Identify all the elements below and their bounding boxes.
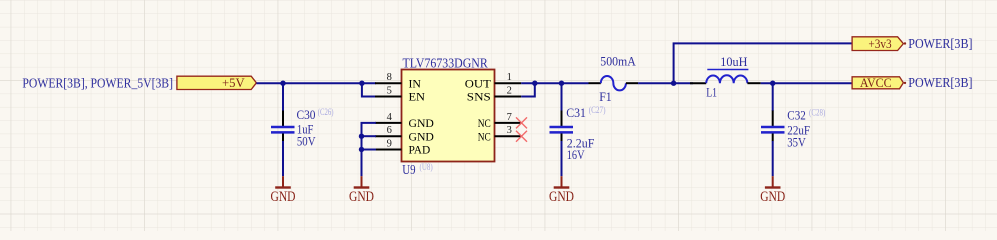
svg-text:(U8): (U8): [420, 162, 433, 172]
svg-text:9: 9: [387, 139, 392, 150]
svg-text:(C28): (C28): [809, 107, 825, 117]
svg-text:NC: NC: [478, 131, 491, 143]
svg-text:5: 5: [387, 86, 392, 97]
svg-text:IN: IN: [409, 78, 422, 90]
svg-text:GND: GND: [271, 189, 296, 205]
svg-text:POWER[3B]: POWER[3B]: [908, 36, 972, 51]
svg-text:+3v3: +3v3: [868, 36, 891, 51]
svg-text:POWER[3B], POWER_5V[3B]: POWER[3B], POWER_5V[3B]: [22, 75, 173, 90]
wire C30 top: [282, 83, 284, 111]
svg-text:SNS: SNS: [467, 92, 491, 104]
node junction pin6 tap: [359, 134, 364, 139]
wire C32 bottom: [772, 141, 774, 176]
wire fuse to L1: [638, 82, 693, 84]
svg-text:16V: 16V: [567, 148, 585, 162]
ground GND under U9: [349, 176, 374, 205]
regulator U9 body TLV76733DGNR: [402, 56, 495, 178]
svg-text:7: 7: [507, 112, 512, 123]
svg-text:4: 4: [387, 112, 393, 123]
svg-text:U9: U9: [402, 163, 415, 178]
pin 9 PAD: [375, 139, 430, 157]
node junction +3v3 tap: [671, 81, 676, 86]
svg-text:50V: 50V: [297, 134, 316, 148]
wire C30 bottom: [282, 141, 284, 176]
svg-text:C32: C32: [787, 108, 806, 122]
svg-text:500mA: 500mA: [600, 55, 636, 69]
wire L1 to AVCC port: [761, 82, 852, 84]
svg-text:L1: L1: [706, 85, 717, 99]
svg-text:GND: GND: [760, 189, 785, 205]
svg-text:10uH: 10uH: [720, 55, 747, 69]
svg-text:GND: GND: [409, 118, 434, 130]
svg-text:AVCC: AVCC: [860, 75, 892, 90]
capacitor C31: [550, 105, 606, 162]
pin 5 EN: [375, 86, 426, 104]
svg-text:+5V: +5V: [222, 75, 245, 90]
pin 7 NC with no-connect cross: [478, 112, 527, 130]
wire C32 top: [772, 83, 774, 111]
pin 6 GND: [375, 125, 434, 143]
node junction SNS tap: [532, 81, 537, 86]
svg-text:PAD: PAD: [409, 145, 431, 157]
wire C31 bottom: [561, 141, 563, 176]
svg-text:2: 2: [507, 86, 512, 97]
svg-text:1: 1: [507, 72, 512, 83]
svg-text:TLV76733DGNR: TLV76733DGNR: [403, 56, 489, 71]
svg-text:C31: C31: [566, 106, 586, 120]
fuse F1 500mA: [589, 55, 639, 104]
ground GND under C30: [271, 176, 296, 205]
wire riser to +3v3 port: [674, 43, 853, 83]
svg-text:F1: F1: [599, 90, 612, 104]
wire SNS riser: [521, 83, 535, 96]
wire U9 GND/PAD bus to ground: [362, 123, 376, 176]
svg-text:GND: GND: [549, 189, 574, 205]
pin 1 OUT: [465, 72, 521, 90]
node junction at EN tap: [359, 81, 364, 86]
pin 2 SNS: [467, 86, 521, 104]
pin 3 NC with no-connect cross: [478, 125, 527, 143]
pin 8 IN: [375, 72, 422, 90]
svg-text:OUT: OUT: [465, 78, 491, 90]
node junction C31 tap: [559, 81, 564, 86]
svg-text:(C26): (C26): [318, 107, 334, 117]
svg-text:POWER[3B]: POWER[3B]: [908, 75, 972, 90]
svg-text:EN: EN: [409, 92, 426, 104]
port AVCC: [852, 75, 906, 90]
svg-text:8: 8: [387, 72, 392, 83]
capacitor C32: [761, 107, 825, 149]
port +3v3: [852, 36, 906, 51]
svg-text:GND: GND: [409, 131, 434, 143]
svg-text:6: 6: [387, 125, 392, 136]
node junction at C30 tap: [280, 81, 285, 86]
svg-text:35V: 35V: [787, 136, 806, 150]
ground GND under C31: [549, 176, 574, 205]
svg-text:GND: GND: [349, 189, 374, 205]
svg-text:NC: NC: [478, 118, 491, 130]
svg-text:(C27): (C27): [589, 105, 606, 115]
capacitor C30: [271, 107, 334, 149]
inductor L1 10uH: [690, 55, 761, 99]
port +5V: [177, 75, 257, 90]
pin 4 GND: [375, 112, 434, 130]
wire U9 OUT to fuse: [521, 82, 588, 84]
node junction pin9 tap: [359, 147, 364, 152]
wire EN drop to U9 pin 5: [362, 83, 376, 96]
node junction C32 tap: [770, 81, 775, 86]
ground GND under C32: [760, 176, 785, 205]
svg-text:3: 3: [507, 125, 512, 136]
wire +5V port to U9 pin 8 (IN): [256, 82, 376, 84]
wire C31 top: [561, 83, 563, 111]
svg-text:C30: C30: [297, 108, 316, 122]
